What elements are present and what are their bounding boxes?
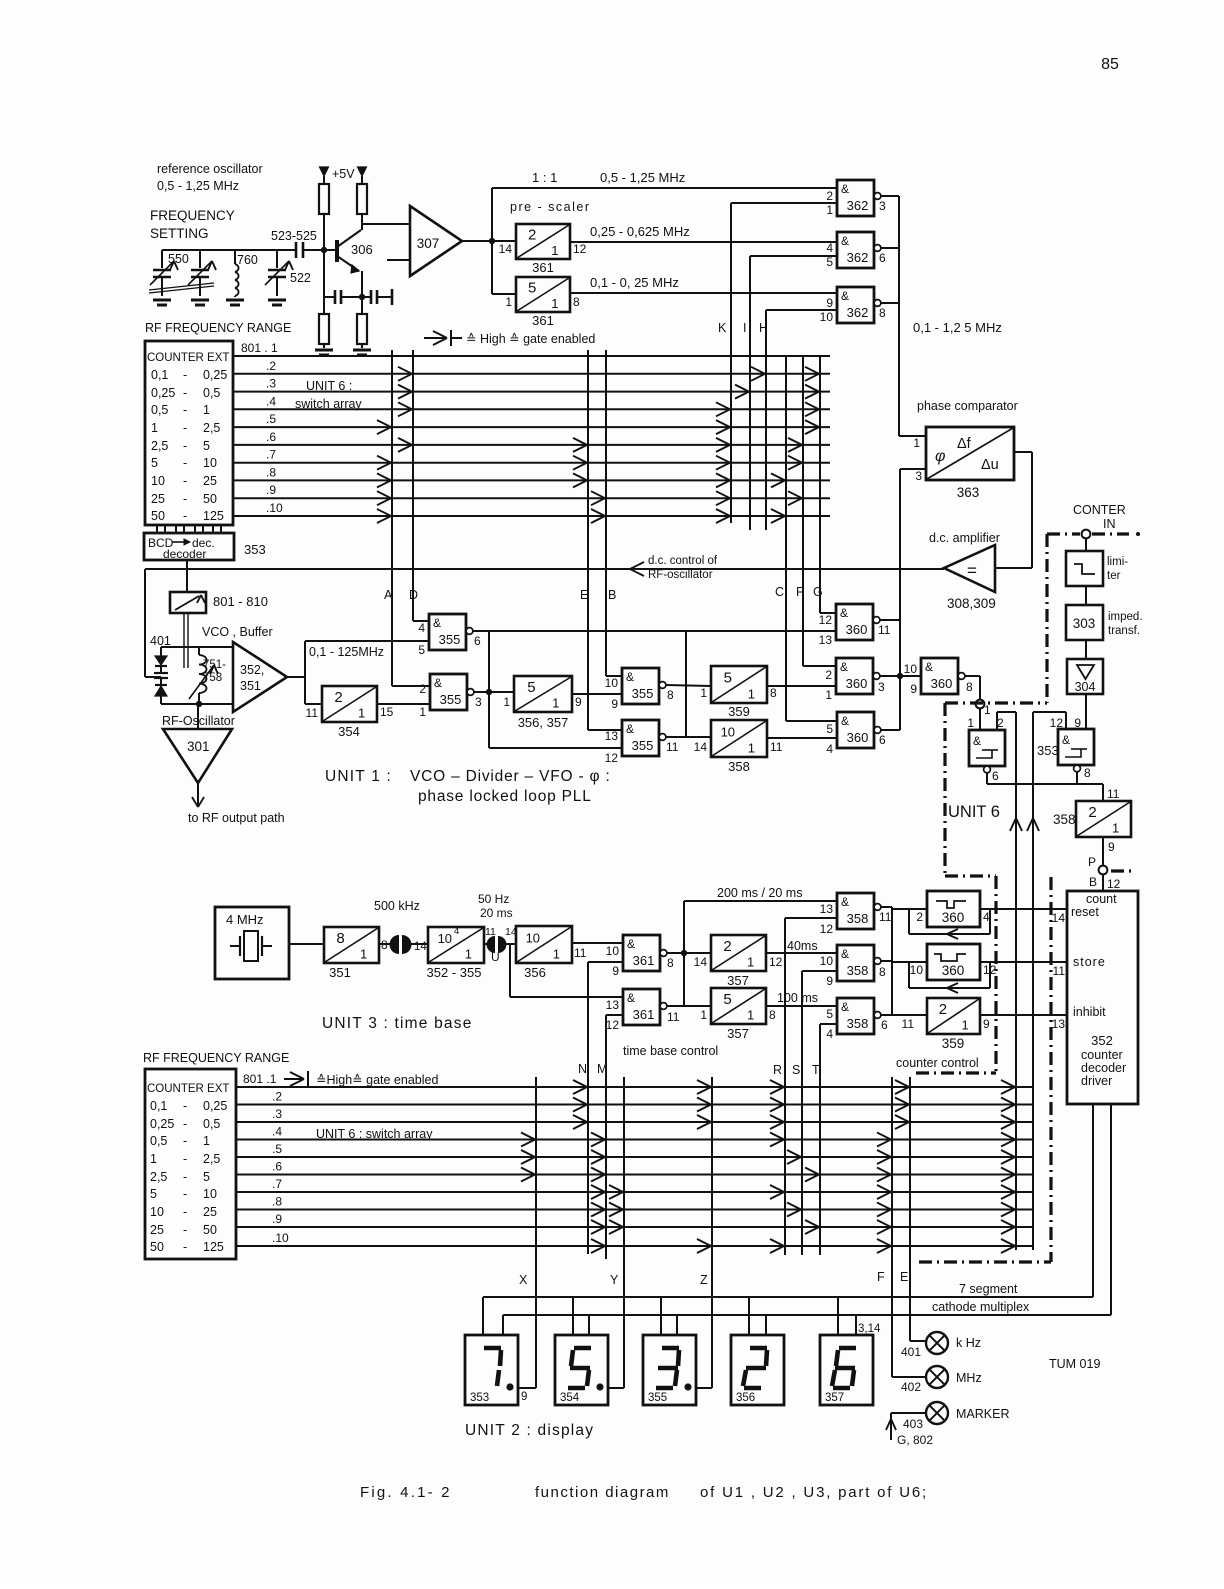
svg-text:.7: .7 bbox=[266, 448, 276, 462]
svg-text:361: 361 bbox=[633, 953, 655, 968]
wire branch to gate361b bbox=[509, 944, 511, 997]
svg-text:counter: counter bbox=[1081, 1048, 1123, 1062]
svg-text:14: 14 bbox=[414, 941, 427, 953]
svg-text:&: & bbox=[841, 895, 849, 909]
vertical bus F2 bbox=[891, 1077, 893, 1377]
svg-text:361: 361 bbox=[633, 1007, 655, 1022]
vertical bus Y bbox=[623, 1077, 625, 1388]
wire 356 out bbox=[572, 942, 623, 944]
svg-text:-: - bbox=[183, 1223, 187, 1237]
svg-text:k Hz: k Hz bbox=[956, 1336, 981, 1350]
svg-text:401: 401 bbox=[901, 1345, 921, 1359]
svg-text:.8: .8 bbox=[266, 465, 276, 479]
svg-text:7 segment: 7 segment bbox=[959, 1282, 1018, 1296]
svg-text:-: - bbox=[183, 474, 187, 488]
svg-text:355: 355 bbox=[440, 692, 462, 707]
svg-text:9: 9 bbox=[612, 964, 619, 978]
svg-text:.6: .6 bbox=[272, 1160, 282, 1174]
divider 351 (8:1) bbox=[324, 927, 379, 963]
svg-text:&: & bbox=[841, 1000, 849, 1014]
svg-text:358: 358 bbox=[847, 911, 869, 926]
svg-text:402: 402 bbox=[901, 1380, 921, 1394]
svg-text:9: 9 bbox=[826, 974, 833, 988]
wire 100ms bbox=[766, 1005, 837, 1007]
svg-text:UNIT 6: UNIT 6 bbox=[948, 803, 1000, 821]
svg-text:550: 550 bbox=[168, 252, 189, 266]
wire 358 to P node bbox=[1102, 837, 1104, 866]
svg-text:&: & bbox=[925, 660, 933, 674]
wire gate353L pin2 bbox=[996, 712, 998, 730]
nand gate 355 b bbox=[430, 674, 467, 710]
svg-text:UNIT 6 : switch array: UNIT 6 : switch array bbox=[316, 1127, 433, 1141]
svg-text:362: 362 bbox=[847, 305, 869, 320]
svg-text:354: 354 bbox=[338, 724, 360, 739]
svg-text:IN: IN bbox=[1103, 517, 1116, 531]
nand gate 362 b bbox=[837, 232, 874, 268]
svg-text:2: 2 bbox=[826, 189, 833, 203]
svg-text:&: & bbox=[973, 734, 981, 748]
svg-text:&: & bbox=[433, 616, 441, 630]
svg-text:pre - scaler: pre - scaler bbox=[510, 200, 591, 214]
switch array 2 arrows to counter bbox=[1001, 1080, 1015, 1087]
svg-text:125: 125 bbox=[203, 509, 224, 523]
svg-text:9: 9 bbox=[1108, 840, 1115, 854]
svg-text:500 kHz: 500 kHz bbox=[374, 899, 420, 913]
svg-text:F: F bbox=[796, 585, 804, 599]
svg-text:reference oscillator: reference oscillator bbox=[157, 162, 263, 176]
svg-text:-: - bbox=[183, 1117, 187, 1131]
svg-text:308,309: 308,309 bbox=[947, 596, 996, 611]
wire 363 output bbox=[1014, 451, 1032, 453]
svg-text:.4: .4 bbox=[272, 1125, 282, 1139]
node 1 bbox=[976, 700, 985, 709]
junction bbox=[321, 247, 327, 253]
wire resistor bottoms bbox=[323, 214, 325, 250]
divider 357 (2:1) bbox=[711, 935, 766, 971]
svg-text:1: 1 bbox=[150, 1152, 157, 1166]
coupling cap 2 bbox=[484, 943, 488, 945]
wire varactor rails bbox=[161, 646, 233, 648]
svg-text:1: 1 bbox=[203, 1134, 210, 1148]
svg-text:10: 10 bbox=[203, 1187, 217, 1201]
svg-text:&: & bbox=[627, 991, 635, 1005]
svg-text:I: I bbox=[743, 321, 746, 335]
wire I to gate362b pin5 bbox=[750, 255, 837, 257]
svg-text:counter control: counter control bbox=[896, 1056, 979, 1070]
divider 352-355 (10^4:1) bbox=[428, 927, 484, 963]
vco buffer amplifier 352 351 bbox=[233, 642, 287, 712]
svg-text:360: 360 bbox=[942, 910, 965, 925]
svg-text:decoder: decoder bbox=[163, 547, 206, 561]
svg-text:356: 356 bbox=[736, 1392, 755, 1404]
wire display drops rail2 bbox=[502, 1315, 504, 1335]
svg-text:2: 2 bbox=[334, 689, 342, 706]
svg-text:355: 355 bbox=[632, 738, 654, 753]
svg-text:1: 1 bbox=[151, 421, 158, 435]
svg-text:5: 5 bbox=[203, 1170, 210, 1184]
svg-text:1: 1 bbox=[747, 1008, 754, 1023]
svg-text:0,1 - 0, 25 MHz: 0,1 - 0, 25 MHz bbox=[590, 275, 679, 290]
vertical bus I bbox=[749, 256, 751, 530]
svg-text:1: 1 bbox=[552, 696, 559, 711]
svg-text:50: 50 bbox=[203, 1223, 217, 1237]
svg-text:P: P bbox=[1088, 855, 1096, 869]
wire 359 out inhibit bbox=[980, 1014, 1067, 1016]
svg-text:12: 12 bbox=[1107, 877, 1121, 891]
svg-text:B: B bbox=[608, 588, 616, 602]
svg-text:50: 50 bbox=[151, 509, 165, 523]
svg-text:2: 2 bbox=[723, 938, 731, 955]
svg-text:.10: .10 bbox=[266, 501, 283, 515]
svg-text:2,5: 2,5 bbox=[150, 1170, 167, 1184]
resistor bottom-right bbox=[361, 297, 363, 314]
svg-text:9: 9 bbox=[910, 682, 917, 696]
svg-text:9: 9 bbox=[983, 1017, 990, 1031]
ground right bbox=[361, 344, 363, 348]
svg-text:358: 358 bbox=[728, 759, 750, 774]
svg-text:11: 11 bbox=[574, 946, 587, 960]
svg-text:VCO , Buffer: VCO , Buffer bbox=[202, 625, 273, 639]
divider 358 (2:1) unit6 bbox=[1076, 801, 1131, 837]
wire branch to gate355d bbox=[488, 631, 490, 748]
svg-text:11: 11 bbox=[1053, 964, 1066, 978]
svg-text:ter: ter bbox=[1107, 570, 1121, 582]
svg-text:d.c. control of: d.c. control of bbox=[648, 555, 718, 567]
svg-text:0,1: 0,1 bbox=[150, 1099, 167, 1113]
svg-text:4 MHz: 4 MHz bbox=[226, 912, 264, 927]
svg-text:&: & bbox=[841, 714, 849, 728]
wire C to gate360c bbox=[786, 720, 837, 722]
svg-text:10: 10 bbox=[151, 474, 165, 488]
svg-text:351: 351 bbox=[329, 965, 351, 980]
svg-text:&: & bbox=[434, 676, 442, 690]
svg-text:200 ms / 20 ms: 200 ms / 20 ms bbox=[717, 886, 802, 900]
vertical bus M bbox=[605, 1015, 607, 1259]
svg-text:2: 2 bbox=[528, 226, 536, 243]
svg-text:10: 10 bbox=[820, 310, 834, 324]
svg-text:1: 1 bbox=[551, 296, 558, 311]
svg-text:50 Hz: 50 Hz bbox=[478, 892, 509, 906]
svg-text:360: 360 bbox=[846, 622, 868, 637]
svg-text:356, 357: 356, 357 bbox=[518, 715, 569, 730]
svg-text:TUM 019: TUM 019 bbox=[1049, 1357, 1100, 1371]
svg-text:8: 8 bbox=[879, 965, 886, 979]
svg-text:360: 360 bbox=[931, 676, 953, 691]
svg-text:12: 12 bbox=[819, 613, 833, 627]
svg-text:0,5 - 1,25 MHz: 0,5 - 1,25 MHz bbox=[157, 179, 239, 193]
svg-text:Z: Z bbox=[700, 1273, 708, 1287]
svg-text:RF FREQUENCY RANGE: RF FREQUENCY RANGE bbox=[145, 321, 291, 335]
svg-text:359: 359 bbox=[942, 1036, 965, 1051]
divider 359 (5:1) bbox=[711, 666, 767, 703]
svg-text:5: 5 bbox=[151, 456, 158, 470]
svg-text:352 - 355: 352 - 355 bbox=[427, 965, 482, 980]
svg-text:count: count bbox=[1086, 892, 1117, 906]
svg-text:UNIT 2 : display: UNIT 2 : display bbox=[465, 1422, 594, 1439]
dash-dot boundary counter control bbox=[994, 876, 997, 1072]
vertical bus N bbox=[587, 962, 589, 1254]
svg-text:9: 9 bbox=[575, 695, 582, 709]
svg-text:5: 5 bbox=[527, 679, 535, 696]
switch array 2 arrows bbox=[573, 1080, 587, 1087]
vertical feedback line 1033 bbox=[1032, 712, 1034, 1250]
retrigger loop a bbox=[908, 909, 910, 934]
svg-text:&: & bbox=[1062, 733, 1070, 747]
wire 304 to gate bbox=[1085, 694, 1087, 729]
vertical bus A bbox=[391, 350, 393, 686]
svg-text:4: 4 bbox=[826, 1027, 833, 1041]
svg-text:356: 356 bbox=[524, 965, 546, 980]
svg-text:353: 353 bbox=[244, 542, 266, 557]
vertical bus E bbox=[587, 350, 589, 730]
svg-text:360: 360 bbox=[846, 676, 868, 691]
svg-text:10: 10 bbox=[526, 930, 540, 945]
svg-text:0,25: 0,25 bbox=[203, 1099, 227, 1113]
svg-text:driver: driver bbox=[1081, 1074, 1112, 1088]
svg-text:1: 1 bbox=[1112, 821, 1119, 836]
svg-text:R: R bbox=[773, 1063, 782, 1077]
svg-text:13: 13 bbox=[820, 902, 834, 916]
svg-text:0,1 - 125MHz: 0,1 - 125MHz bbox=[309, 645, 384, 659]
svg-text:8: 8 bbox=[667, 956, 674, 970]
wire 7 segment rail bbox=[483, 1296, 1093, 1298]
relay 801-810 bbox=[170, 592, 206, 613]
svg-text:RF FREQUENCY RANGE: RF FREQUENCY RANGE bbox=[143, 1051, 289, 1065]
svg-text:S: S bbox=[792, 1063, 800, 1077]
svg-text:10: 10 bbox=[904, 662, 918, 676]
stub wires counter to decoder bbox=[156, 525, 158, 533]
svg-text:8: 8 bbox=[879, 306, 886, 320]
svg-text:354: 354 bbox=[560, 1392, 580, 1404]
svg-text:85: 85 bbox=[1101, 56, 1119, 73]
svg-text:.4: .4 bbox=[266, 394, 276, 408]
nand gate 361 a bbox=[623, 935, 660, 971]
svg-text:8: 8 bbox=[336, 930, 344, 947]
svg-text:304: 304 bbox=[1075, 680, 1096, 694]
svg-text:20 ms: 20 ms bbox=[480, 906, 513, 920]
svg-text:-: - bbox=[183, 1152, 187, 1166]
wire decoder to relay bbox=[186, 560, 188, 592]
svg-text:351: 351 bbox=[240, 679, 261, 693]
vertical bus X bbox=[535, 1077, 537, 1388]
svg-text:125: 125 bbox=[203, 1240, 224, 1254]
svg-text:=: = bbox=[967, 561, 977, 580]
svg-text:352: 352 bbox=[1091, 1033, 1113, 1048]
svg-text:of U1 , U2 , U3, part of U6;: of U1 , U2 , U3, part of U6; bbox=[700, 1484, 928, 1501]
svg-text:phase comparator: phase comparator bbox=[917, 399, 1018, 413]
counter ext box 2 bbox=[145, 1069, 236, 1259]
svg-text:751-: 751- bbox=[203, 659, 226, 671]
svg-text:360: 360 bbox=[847, 730, 869, 745]
lamp 402 MHz bbox=[926, 1366, 948, 1388]
svg-text:UNIT 6 :: UNIT 6 : bbox=[306, 379, 352, 393]
svg-text:-: - bbox=[183, 368, 187, 382]
nand gate 361 b bbox=[623, 989, 660, 1025]
nand gate 360 c bbox=[837, 712, 874, 748]
svg-text:COUNTER EXT: COUNTER EXT bbox=[147, 1083, 229, 1095]
svg-text:50: 50 bbox=[203, 492, 217, 506]
dash-dot boundary top bbox=[1047, 532, 1080, 535]
vertical S branch bbox=[801, 971, 803, 1255]
svg-text:3,14: 3,14 bbox=[858, 1323, 881, 1335]
svg-text:758: 758 bbox=[203, 672, 222, 684]
svg-text:12: 12 bbox=[820, 922, 834, 936]
svg-text:5: 5 bbox=[826, 1007, 833, 1021]
nand gate 355 c bbox=[622, 668, 659, 704]
wire collector to amp bbox=[362, 223, 410, 225]
variable capacitor 550 bbox=[161, 250, 163, 268]
svg-text:11: 11 bbox=[306, 706, 319, 720]
svg-text:10: 10 bbox=[605, 676, 619, 690]
wire 358 out bbox=[767, 737, 837, 739]
svg-text:357: 357 bbox=[825, 1392, 844, 1404]
svg-text:14: 14 bbox=[694, 955, 708, 969]
nand gate 358 a bbox=[837, 893, 874, 929]
svg-text:2: 2 bbox=[916, 910, 923, 924]
svg-text:inhibit: inhibit bbox=[1073, 1005, 1106, 1019]
svg-text:1: 1 bbox=[984, 703, 991, 717]
wire gate360d out to node bbox=[979, 676, 981, 700]
svg-text:11: 11 bbox=[666, 740, 679, 754]
svg-text:6: 6 bbox=[881, 1018, 888, 1032]
svg-text:3: 3 bbox=[878, 680, 885, 694]
wire 356,357 out bbox=[572, 693, 622, 695]
wire display drops rail1 bbox=[482, 1297, 484, 1335]
svg-text:switch array: switch array bbox=[295, 397, 362, 411]
svg-text:1: 1 bbox=[747, 955, 754, 970]
svg-text:5: 5 bbox=[203, 439, 210, 453]
svg-text:.7: .7 bbox=[272, 1177, 282, 1191]
svg-text:.2: .2 bbox=[266, 359, 276, 373]
vertical bus K bbox=[730, 203, 732, 523]
svg-text:3: 3 bbox=[475, 695, 482, 709]
svg-text:1: 1 bbox=[551, 243, 558, 258]
svg-text:1: 1 bbox=[825, 688, 832, 702]
wire combined output vertical bbox=[898, 196, 900, 436]
svg-text:1: 1 bbox=[962, 1018, 969, 1033]
svg-text:&: & bbox=[627, 937, 635, 951]
wire to rf oscillator bbox=[197, 704, 199, 729]
svg-text:6: 6 bbox=[992, 769, 999, 783]
svg-text:φ: φ bbox=[935, 448, 945, 465]
divider 361 (2:1) bbox=[516, 224, 570, 259]
svg-text:361: 361 bbox=[532, 260, 554, 275]
svg-text:-: - bbox=[183, 386, 187, 400]
nand gate 360 d bbox=[921, 658, 958, 694]
vertical bus D bbox=[412, 350, 414, 621]
display digit 353 bbox=[465, 1335, 518, 1405]
wire oscillator bus bbox=[162, 249, 296, 251]
svg-text:14: 14 bbox=[499, 242, 513, 256]
wire vco out bbox=[287, 676, 305, 678]
switch array 1 horizontal lines bbox=[233, 355, 830, 357]
svg-text:11: 11 bbox=[878, 623, 891, 637]
svg-text:10: 10 bbox=[438, 931, 452, 946]
wire E to gate355d bbox=[588, 729, 622, 731]
display digit 355 bbox=[643, 1335, 696, 1405]
svg-text:353: 353 bbox=[470, 1392, 489, 1404]
svg-text:0,1: 0,1 bbox=[151, 368, 168, 382]
svg-text:352,: 352, bbox=[240, 663, 264, 677]
attenuator 304 bbox=[1085, 640, 1087, 659]
svg-text:801 - 810: 801 - 810 bbox=[213, 594, 268, 609]
svg-text:K: K bbox=[718, 321, 727, 335]
svg-text:+5V: +5V bbox=[332, 167, 355, 181]
phase comparator 363 bbox=[926, 427, 1014, 480]
nand gate 358 c bbox=[837, 998, 874, 1034]
wire D to gate355a bbox=[413, 620, 429, 622]
svg-text:1: 1 bbox=[505, 295, 512, 309]
svg-text:D: D bbox=[409, 588, 418, 602]
svg-text:1: 1 bbox=[700, 686, 707, 700]
svg-text:UNIT 3 : time base: UNIT 3 : time base bbox=[322, 1015, 473, 1032]
svg-text:11: 11 bbox=[667, 1010, 680, 1024]
wire mono b out bbox=[980, 961, 1067, 963]
svg-text:0,25: 0,25 bbox=[203, 368, 227, 382]
svg-text:8: 8 bbox=[769, 1008, 776, 1022]
vertical bus Z bbox=[711, 1077, 713, 1388]
svg-text:14: 14 bbox=[694, 740, 708, 754]
svg-text:2: 2 bbox=[1088, 804, 1096, 821]
nand gate 362 c bbox=[837, 287, 874, 323]
wire amp output bbox=[462, 240, 516, 242]
vertical bus E2 bbox=[909, 1077, 911, 1341]
svg-text:store: store bbox=[1073, 955, 1106, 969]
svg-text:2,5: 2,5 bbox=[203, 421, 220, 435]
wire G to gate360a bbox=[820, 612, 836, 614]
svg-text:5: 5 bbox=[418, 643, 425, 657]
arrow to rf output bbox=[197, 783, 199, 806]
svg-text:357: 357 bbox=[727, 1026, 749, 1041]
svg-text:cathode multiplex: cathode multiplex bbox=[932, 1300, 1030, 1314]
transistor 306 bbox=[335, 240, 339, 262]
svg-text:imped.: imped. bbox=[1108, 611, 1143, 623]
svg-text:limi-: limi- bbox=[1107, 556, 1128, 568]
svg-text:11: 11 bbox=[902, 1017, 915, 1031]
svg-text:359: 359 bbox=[728, 704, 750, 719]
svg-text:0,5: 0,5 bbox=[150, 1134, 167, 1148]
svg-text:3: 3 bbox=[879, 199, 886, 213]
wire 359 out bbox=[767, 685, 836, 687]
wire F to gate360b bbox=[803, 665, 836, 667]
svg-text:4: 4 bbox=[454, 926, 459, 937]
vertical bus C bbox=[785, 355, 787, 721]
supply +5V arrows bbox=[320, 167, 329, 176]
inductor 751-758 bbox=[198, 647, 200, 655]
nand gate 360 a bbox=[836, 604, 873, 640]
divider 354 (2:1) bbox=[322, 686, 377, 722]
svg-text:COUNTER EXT: COUNTER EXT bbox=[147, 352, 229, 364]
svg-text:.5: .5 bbox=[272, 1142, 282, 1156]
svg-text:403: 403 bbox=[903, 1417, 923, 1431]
wire counter outputs bbox=[1092, 1104, 1094, 1297]
legend high gate enabled bbox=[424, 337, 447, 339]
svg-text:-: - bbox=[183, 492, 187, 506]
svg-text:13: 13 bbox=[1052, 1017, 1066, 1031]
variable capacitor 2 bbox=[199, 250, 201, 268]
rf oscillator 301 bbox=[163, 729, 232, 783]
svg-text:Y: Y bbox=[610, 1273, 619, 1287]
display digit 357 bbox=[820, 1335, 873, 1405]
svg-text:-: - bbox=[183, 1134, 187, 1148]
svg-text:25: 25 bbox=[150, 1223, 164, 1237]
svg-text:5: 5 bbox=[826, 255, 833, 269]
nand gate 355 a bbox=[429, 614, 466, 650]
svg-text:MARKER: MARKER bbox=[956, 1407, 1009, 1421]
svg-text:2,5: 2,5 bbox=[203, 1152, 220, 1166]
wire H to gate362c pin10 bbox=[766, 309, 837, 311]
svg-text:&: & bbox=[841, 234, 849, 248]
